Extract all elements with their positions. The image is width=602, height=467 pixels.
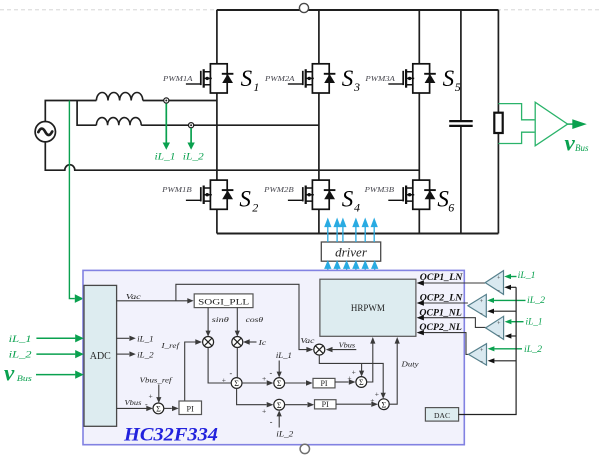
svg-text:iL_2: iL_2 (276, 430, 293, 439)
svg-text:S: S (443, 66, 455, 91)
PI block PI0 (179, 401, 202, 415)
svg-text:1: 1 (253, 80, 259, 94)
wire: bottom DC bus rail (217, 233, 499, 235)
wire OCP1_NL from comparator 3 to HRPWM (424, 318, 486, 328)
black ref arrow into CMP3 (511, 335, 516, 337)
svg-text:driver: driver (335, 245, 368, 260)
wire iL_2 stub out of ADC (117, 353, 130, 355)
wire I_ref from PI0 up to multiplier X1 (185, 342, 196, 401)
wire: top DC bus rail (217, 9, 499, 11)
wire iL_1 down into S2c (278, 361, 280, 373)
svg-text:iL_2: iL_2 (9, 350, 33, 360)
HRPWM block (320, 279, 416, 336)
comparator CMP1 (485, 271, 503, 295)
svg-text:Bus: Bus (575, 143, 589, 153)
svg-text:+: + (370, 396, 374, 405)
svg-text:S: S (342, 66, 354, 91)
wire X2 out to S1c top (236, 348, 238, 378)
transistor S4 (288, 180, 336, 209)
AC source V1 (35, 122, 55, 142)
wire sin theta out of SOGI (207, 308, 209, 331)
svg-text:PI: PI (320, 379, 327, 388)
svg-text:PWM3B: PWM3B (363, 186, 394, 194)
svg-text:6: 6 (448, 201, 454, 215)
transistor S5 (388, 64, 436, 93)
comparator CMP2 (468, 294, 486, 317)
svg-text:iL_2: iL_2 (183, 152, 204, 162)
wire S4 up into HRPWM (Duty) (389, 343, 397, 404)
wire OCP2_LN from comparator 2 to HRPWM (424, 302, 468, 304)
svg-text:OCP2_LN: OCP2_LN (420, 293, 464, 304)
MCU HC32F334 box (83, 270, 464, 444)
svg-text:5: 5 (455, 80, 461, 94)
svg-text:+: + (262, 407, 266, 416)
svg-text:PI: PI (322, 400, 329, 409)
svg-text:HRPWM: HRPWM (351, 303, 385, 313)
transistor S1 (186, 64, 234, 93)
wire X1 out to S1c (208, 348, 231, 384)
node port circle on top rail (299, 3, 308, 12)
svg-text:PWM2B: PWM2B (263, 186, 294, 194)
SOGI_PLL block (194, 294, 253, 308)
svg-text:+: + (480, 299, 484, 305)
comparator CMP4 (469, 344, 487, 365)
svg-text:Bus: Bus (17, 373, 33, 383)
green Vac sense line from AC node down to ADC (69, 101, 74, 299)
svg-text:Vbus: Vbus (125, 398, 142, 407)
green buffer amp triangle (535, 102, 567, 146)
green input arrow iL_2 (36, 353, 75, 355)
capacitor C1 plates (449, 121, 473, 126)
svg-text:iL_1: iL_1 (9, 334, 32, 344)
wire: leg2 verticals (318, 10, 320, 234)
svg-text:HC32F334: HC32F334 (123, 426, 218, 446)
wire: L2 to leg2 midpoint (141, 124, 319, 126)
wire: AC source top lead (45, 101, 96, 122)
svg-text:PWM3A: PWM3A (364, 75, 395, 83)
svg-text:SOGI_PLL: SOGI_PLL (198, 298, 249, 307)
inductor L2 (96, 118, 141, 126)
wire: AC source bottom lead with hop over green line (45, 142, 419, 170)
svg-text:Vac: Vac (300, 336, 315, 345)
capacitor C1 branch wires (460, 10, 462, 234)
green input arrow vBus (36, 374, 75, 376)
wire Ic stub into multiplier X2 (250, 341, 257, 343)
ADC block (84, 285, 117, 426)
svg-text:S: S (342, 187, 354, 212)
wire X3 feedforward to S3 and S4 (319, 355, 383, 393)
svg-text:Σ: Σ (156, 405, 161, 414)
cyan gate arrows driver to bridge (325, 219, 377, 242)
PI block PI1 (313, 378, 335, 388)
DAC block (425, 408, 458, 422)
wire Vac from ADC to SOGI_PLL (117, 300, 188, 302)
svg-text:S: S (241, 66, 253, 91)
svg-text:DAC: DAC (434, 411, 450, 420)
wire iL_1 stub out of ADC (117, 337, 130, 339)
svg-text:PWM1A: PWM1A (162, 75, 193, 83)
current sense pin on L2 wire (189, 123, 194, 128)
wire: L1 to leg1 midpoint (143, 100, 217, 102)
svg-text:iL_2: iL_2 (527, 295, 546, 305)
summer S1c (current ref) (231, 378, 242, 389)
svg-text:Ic: Ic (257, 338, 266, 347)
svg-text:PWM2A: PWM2A (264, 75, 295, 83)
svg-text:cosθ: cosθ (246, 315, 264, 324)
svg-text:Σ: Σ (359, 378, 364, 387)
cyan arrows HRPWM to driver (325, 262, 377, 279)
wire Vac branch to multiplier 3 (176, 284, 307, 349)
green vBus sense wires at load (498, 104, 534, 144)
wire S0 to PI0 (164, 407, 172, 409)
svg-text:iL_2: iL_2 (524, 344, 543, 354)
svg-text:+: + (352, 368, 356, 377)
green sense arrow into CMP3 (511, 321, 523, 323)
svg-text:ADC: ADC (90, 351, 111, 362)
wire: leg3 verticals (418, 10, 420, 234)
svg-text:S: S (239, 187, 251, 212)
summer S0 (Vbus loop) (153, 403, 164, 414)
wire OCP2_NL from comparator 4 to HRPWM (424, 333, 469, 355)
node port circle on MCU bottom border (300, 444, 309, 453)
svg-text:+: + (375, 390, 379, 399)
svg-text:iL_1: iL_1 (137, 335, 154, 344)
svg-text:I_ref: I_ref (160, 341, 181, 350)
wire PI2 to S4 (336, 403, 371, 405)
svg-text:+: + (222, 375, 226, 384)
svg-text:Σ: Σ (277, 379, 282, 388)
svg-text:Vbus: Vbus (339, 341, 356, 350)
wire Vbus_ref down into S0 (158, 385, 160, 398)
svg-text:iL_1: iL_1 (518, 270, 536, 280)
wire S1c to S2c (242, 382, 267, 384)
current sense pin on L1 wire (164, 98, 169, 103)
wire Vbus stub into multiplier X3 (332, 349, 356, 351)
svg-text:sinθ: sinθ (212, 315, 229, 324)
summer S2d (phase2) (274, 399, 285, 410)
svg-text:+: + (347, 374, 351, 383)
svg-text:iL_1: iL_1 (276, 351, 292, 360)
wire iL_2 up into S2d (278, 416, 280, 428)
transistor S2 (186, 180, 234, 209)
wire S2c to PI1 (285, 382, 306, 384)
svg-text:Σ: Σ (277, 401, 282, 410)
wire: leg1 verticals (216, 10, 218, 234)
wire S1c branch down to S2d (237, 388, 267, 404)
black ref arrow into CMP2 (494, 310, 516, 312)
svg-text:v: v (565, 131, 576, 156)
svg-text:PI: PI (187, 405, 195, 414)
svg-text:OCP1_LN: OCP1_LN (420, 272, 464, 283)
svg-text:v: v (4, 361, 15, 386)
summer S2c (phase1) (274, 378, 285, 389)
svg-text:+: + (262, 374, 266, 383)
svg-text:Σ: Σ (381, 400, 386, 409)
svg-text:OCP1_NL: OCP1_NL (419, 307, 462, 318)
load resistor branch wires (497, 10, 499, 234)
transistor S6 (388, 180, 436, 209)
multiplier X3 (314, 344, 325, 355)
svg-text:-: - (230, 369, 233, 378)
green current arrow iL_1 (165, 104, 167, 144)
svg-text:OCP2_NL: OCP2_NL (419, 322, 462, 333)
page boundary dashed line (0, 9, 602, 11)
svg-text:Vac: Vac (126, 292, 142, 301)
svg-text:iL_1: iL_1 (155, 152, 176, 162)
svg-text:-: - (270, 418, 273, 427)
svg-text:4: 4 (354, 201, 360, 215)
svg-text:-: - (145, 400, 148, 409)
summer S3 (phase1 out) (356, 377, 367, 388)
driver box (321, 242, 380, 261)
wire Vbus from ADC into S0 (117, 407, 147, 409)
green sense arrow into CMP4 (494, 348, 522, 350)
svg-text:Σ: Σ (234, 379, 239, 388)
black ref arrow into CMP1 (511, 286, 516, 288)
wire PI1 to S3 (335, 381, 349, 383)
svg-text:Vbus_ref: Vbus_ref (140, 376, 174, 385)
svg-text:-: - (270, 369, 273, 378)
wire S3 up into HRPWM (367, 343, 373, 382)
multiplier X1 (203, 337, 214, 348)
inductor L1 (96, 93, 142, 101)
svg-text:PWM1B: PWM1B (161, 186, 192, 194)
svg-text:+: + (149, 392, 153, 401)
comparator CMP3 (486, 316, 504, 339)
svg-text:iL_1: iL_1 (526, 316, 543, 326)
green current arrow iL_2 (190, 128, 192, 143)
summer S4 (phase2 out) (378, 399, 389, 410)
svg-text:2: 2 (252, 201, 258, 215)
wire OCP1_LN from comparator 1 to HRPWM (424, 282, 486, 284)
svg-text:3: 3 (353, 80, 360, 94)
transistor S3 (288, 64, 336, 93)
wire S2d to PI2 (285, 404, 308, 406)
load resistor R1 (494, 113, 502, 133)
svg-text:iL_2: iL_2 (137, 350, 154, 359)
green output arrow (568, 123, 573, 125)
DAC reference rail to comparators (459, 287, 516, 414)
multiplier X2 (232, 337, 243, 348)
wire cos theta out of SOGI (236, 308, 238, 331)
green sense arrow into CMP1 (511, 276, 517, 278)
green sense arrow into CMP2 (494, 299, 526, 301)
black ref arrow into CMP4 (494, 360, 516, 362)
green input arrow iL_1 (36, 337, 75, 339)
wire: branch to second inductor (77, 101, 96, 126)
PI block PI2 (315, 400, 337, 409)
svg-text:Duty: Duty (400, 360, 419, 369)
